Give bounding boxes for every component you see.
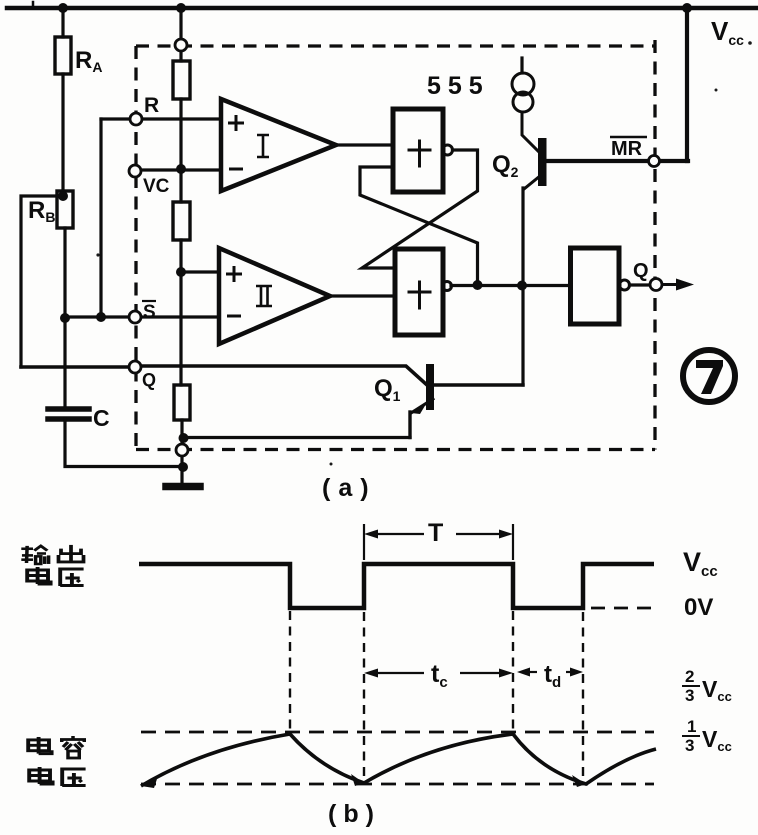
svg-text:R: R bbox=[144, 94, 159, 117]
svg-text:3: 3 bbox=[685, 736, 694, 755]
svg-text:Q: Q bbox=[633, 260, 649, 282]
svg-text:1: 1 bbox=[687, 717, 696, 736]
svg-text:0V: 0V bbox=[684, 594, 713, 621]
svg-text:T: T bbox=[428, 519, 443, 547]
svg-text:555: 555 bbox=[427, 72, 490, 100]
svg-text:C: C bbox=[93, 405, 110, 431]
svg-text:VC: VC bbox=[143, 176, 170, 197]
svg-text:Q: Q bbox=[142, 370, 156, 390]
svg-text:3: 3 bbox=[685, 686, 694, 705]
svg-text:(b): (b) bbox=[328, 800, 381, 828]
svg-text:(a): (a) bbox=[322, 474, 377, 502]
svg-text:S: S bbox=[143, 302, 156, 323]
svg-text:MR: MR bbox=[611, 138, 643, 160]
svg-text:2: 2 bbox=[685, 667, 694, 686]
